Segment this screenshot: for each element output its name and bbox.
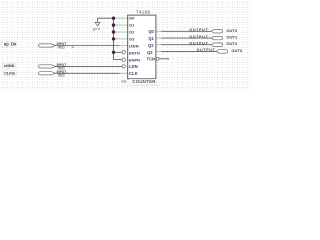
svg-text:ENPN: ENPN	[129, 57, 140, 62]
svg-text:OUTPUT: OUTPUT	[189, 28, 208, 32]
svg-text:D2: D2	[129, 30, 135, 35]
svg-text:OUT3: OUT3	[231, 48, 242, 53]
svg-text:OUTPUT: OUTPUT	[189, 35, 208, 39]
svg-text:CLKin: CLKin	[4, 72, 16, 76]
svg-text:OUTPUT: OUTPUT	[197, 48, 216, 52]
svg-text:Q0: Q0	[148, 29, 154, 34]
svg-text:eNNN: eNNN	[4, 64, 15, 68]
svg-text:D0: D0	[129, 16, 135, 21]
svg-text:OUT0: OUT0	[226, 28, 237, 33]
svg-text:TCN: TCN	[147, 56, 155, 61]
svg-text:D3: D3	[129, 37, 135, 42]
svg-text:VCC: VCC	[58, 46, 66, 50]
svg-text:ENTN: ENTN	[129, 50, 140, 55]
svg-text:CLK: CLK	[129, 71, 139, 76]
svg-text:D1: D1	[129, 23, 135, 28]
svg-text:OUT2: OUT2	[226, 41, 237, 46]
svg-text:Q3: Q3	[147, 50, 153, 55]
svg-text:OUTPUT: OUTPUT	[189, 41, 208, 45]
svg-text:74169: 74169	[136, 10, 151, 15]
svg-text:VCC: VCC	[58, 73, 66, 77]
svg-text:LDN: LDN	[129, 64, 138, 69]
svg-text:inst: inst	[121, 80, 126, 84]
svg-text:up_Do: up_Do	[4, 41, 17, 46]
svg-text:gnd: gnd	[93, 27, 101, 31]
svg-text:U/DN: U/DN	[129, 43, 139, 48]
svg-text:Q2: Q2	[148, 43, 154, 48]
svg-text:COUNTER: COUNTER	[132, 79, 156, 84]
svg-text:OUT1: OUT1	[226, 35, 237, 40]
svg-text:Q1: Q1	[148, 36, 154, 41]
